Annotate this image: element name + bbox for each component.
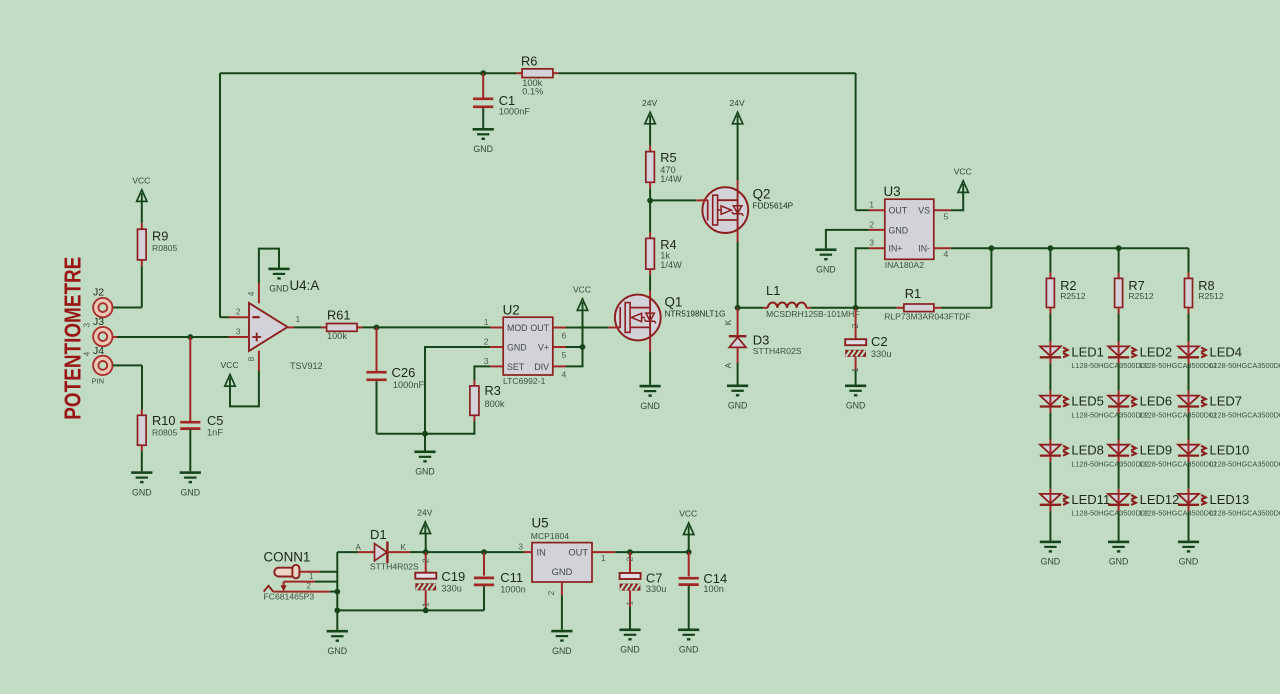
ground below C1	[473, 128, 494, 154]
resistor R5	[646, 146, 682, 189]
LED LED13	[1178, 489, 1280, 518]
svg-text:U4:A: U4:A	[290, 278, 320, 293]
svg-text:2: 2	[546, 590, 556, 595]
svg-text:SET: SET	[507, 362, 525, 372]
svg-text:L128-50HGCA3500D02: L128-50HGCA3500D02	[1071, 509, 1148, 518]
diode D3	[723, 308, 802, 369]
wire op-amp pin8 to VCC	[230, 371, 259, 406]
ground below CONN1	[327, 630, 348, 656]
svg-text:330u: 330u	[441, 583, 461, 593]
svg-text:100n: 100n	[703, 584, 723, 594]
wire 24V rail to U5 IN	[484, 551, 524, 553]
ground below LED13	[1178, 541, 1199, 567]
svg-text:Q2: Q2	[753, 186, 771, 201]
resistor R8	[1185, 273, 1224, 314]
svg-text:LED7: LED7	[1210, 394, 1243, 409]
svg-text:LED8: LED8	[1071, 443, 1104, 458]
svg-text:L128-50HGCA3500D02: L128-50HGCA3500D02	[1071, 460, 1148, 469]
wire U3 GND to ground	[826, 230, 869, 249]
svg-text:1: 1	[420, 602, 430, 607]
wire U2 V+ DIV to VCC	[566, 310, 585, 366]
svg-text:GND: GND	[889, 225, 909, 235]
svg-text:3: 3	[869, 238, 874, 248]
wire U2 GND pin to ground net	[425, 347, 490, 434]
svg-text:4: 4	[81, 351, 91, 356]
LED LED6	[1108, 390, 1217, 419]
svg-text:3: 3	[81, 323, 91, 328]
wire LED4 cathode	[1188, 364, 1190, 391]
capacitor C19	[415, 552, 465, 613]
resistor R2	[1046, 248, 1085, 313]
capacitor C5	[180, 337, 223, 471]
wire J3 to op-amp noninverting input	[113, 334, 230, 340]
svg-text:1: 1	[869, 200, 874, 210]
svg-text:1: 1	[601, 553, 606, 563]
svg-text:4: 4	[562, 369, 567, 379]
svg-text:6: 6	[562, 330, 567, 340]
svg-text:R0805: R0805	[152, 427, 178, 437]
ground below LED11	[1040, 541, 1061, 567]
svg-text:A: A	[723, 362, 733, 368]
svg-text:2: 2	[484, 336, 489, 346]
svg-text:R6: R6	[521, 53, 537, 68]
wire J4 to R10	[113, 365, 142, 409]
resistor R4	[646, 232, 682, 275]
svg-text:MCSDRH125B-101MHF: MCSDRH125B-101MHF	[766, 309, 860, 319]
connector CONN1	[264, 550, 330, 602]
resistor R9	[138, 223, 178, 266]
svg-text:U3: U3	[884, 184, 901, 199]
svg-text:GND: GND	[552, 646, 572, 656]
LED LED4	[1178, 341, 1280, 370]
ground above op-amp U4:A	[268, 268, 289, 294]
resistor R61	[321, 308, 363, 342]
svg-text:4: 4	[944, 249, 949, 259]
LED LED2	[1108, 341, 1217, 370]
wire D1 to 24V node	[410, 549, 429, 555]
power flag VCC above R9	[132, 176, 150, 224]
svg-text:Q1: Q1	[665, 295, 683, 310]
LED LED10	[1178, 440, 1280, 469]
svg-text:IN-: IN-	[918, 244, 930, 254]
svg-text:U2: U2	[503, 303, 520, 318]
svg-text:STTH4R02S: STTH4R02S	[753, 346, 802, 356]
svg-text:IN+: IN+	[889, 244, 903, 254]
svg-text:L128-50HGCA3500D02: L128-50HGCA3500D02	[1140, 410, 1217, 419]
svg-text:100k: 100k	[327, 331, 347, 341]
svg-text:800k: 800k	[485, 399, 505, 409]
svg-text:MCP1804: MCP1804	[531, 531, 569, 541]
connector J3	[81, 316, 112, 347]
svg-text:1: 1	[296, 314, 301, 324]
resistor R7	[1115, 248, 1154, 313]
svg-text:GND: GND	[1041, 557, 1061, 567]
svg-text:IN: IN	[537, 548, 546, 558]
wire Q2 drain to buck node	[737, 242, 739, 308]
wire 24V rail to C11	[426, 549, 487, 555]
svg-text:LED10: LED10	[1210, 443, 1250, 458]
LED LED5	[1040, 390, 1149, 419]
capacitor C2	[845, 308, 891, 385]
resistor R10	[138, 409, 178, 451]
svg-text:V+: V+	[538, 342, 549, 352]
wire U3 IN- to LED rail	[951, 245, 1189, 307]
svg-text:GND: GND	[1179, 557, 1199, 567]
wire bottom ground rail	[337, 609, 484, 611]
svg-text:R1: R1	[905, 286, 921, 301]
svg-text:J2: J2	[93, 286, 104, 298]
wire U3 OUT to feedback rail	[856, 209, 869, 211]
LED LED7	[1178, 390, 1280, 419]
svg-text:GND: GND	[1109, 557, 1129, 567]
svg-text:L128-50HGCA3500D02: L128-50HGCA3500D02	[1071, 361, 1148, 370]
svg-text:GND: GND	[679, 645, 699, 655]
svg-text:J3: J3	[93, 316, 104, 328]
svg-text:GND: GND	[620, 645, 640, 655]
wire ground net stem	[424, 434, 426, 451]
svg-text:2: 2	[307, 582, 312, 591]
svg-text:2: 2	[850, 323, 860, 328]
svg-text:FDD5614P: FDD5614P	[753, 201, 794, 210]
svg-text:LED1: LED1	[1071, 344, 1104, 359]
inductor L1	[738, 283, 860, 319]
ground below C2	[845, 385, 866, 411]
svg-text:330u: 330u	[646, 584, 666, 594]
wire LED6 cathode	[1118, 413, 1120, 440]
svg-text:LED11: LED11	[1071, 492, 1110, 507]
svg-text:L128-50HGCA3500D02: L128-50HGCA3500D02	[1210, 361, 1280, 370]
svg-text:L128-50HGCA3500D02: L128-50HGCA3500D02	[1140, 509, 1217, 518]
svg-text:RLP73M3AR043FTDF: RLP73M3AR043FTDF	[884, 312, 970, 322]
svg-text:C2: C2	[871, 334, 888, 349]
svg-text:1000nF: 1000nF	[393, 380, 425, 390]
wire LED5 cathode	[1049, 413, 1051, 440]
svg-text:GND: GND	[181, 487, 201, 497]
ground below D3	[727, 385, 748, 411]
title POTENTIOMETRE	[60, 257, 86, 420]
wire feedback net top rail	[220, 70, 856, 317]
svg-text:R5: R5	[660, 150, 676, 165]
svg-text:2: 2	[625, 557, 635, 562]
svg-text:LTC6992-1: LTC6992-1	[503, 376, 546, 386]
wire LED7 cathode	[1188, 413, 1190, 440]
wire op-amp output to R61	[294, 326, 321, 328]
node L1 C2 R1 junction	[853, 305, 859, 311]
svg-text:LED4: LED4	[1210, 344, 1243, 359]
svg-text:24V: 24V	[417, 508, 432, 518]
svg-text:LED12: LED12	[1140, 492, 1180, 507]
svg-text:GND: GND	[507, 342, 527, 352]
svg-text:INA180A2: INA180A2	[885, 260, 924, 270]
ground for U3	[815, 248, 836, 274]
IC U2 LTC6992-1	[484, 303, 567, 387]
resistor R1	[856, 286, 992, 322]
ground below C5	[180, 471, 201, 497]
wire LED11 to ground	[1049, 511, 1051, 540]
svg-text:4: 4	[246, 291, 256, 296]
ground below U2 net	[414, 451, 435, 477]
wire U5 OUT to VCC node	[615, 549, 691, 555]
wire U2 SET pin to R3	[474, 366, 490, 380]
svg-text:PIN: PIN	[92, 377, 105, 386]
svg-text:GND: GND	[846, 401, 866, 411]
svg-text:GND: GND	[728, 401, 748, 411]
resistor R3	[470, 380, 505, 421]
wire Q1 source to ground	[649, 352, 651, 385]
wire LED12 to ground	[1118, 511, 1120, 540]
svg-text:GND: GND	[415, 467, 435, 477]
wire J2 to R9	[113, 266, 142, 307]
svg-text:1: 1	[484, 317, 489, 327]
IC U3 INA180A2	[869, 184, 951, 270]
svg-text:1000nF: 1000nF	[499, 107, 531, 117]
svg-text:R2512: R2512	[1128, 291, 1154, 301]
wire LED8 cathode	[1049, 462, 1051, 489]
svg-text:A: A	[356, 543, 362, 552]
svg-text:1nF: 1nF	[207, 427, 223, 437]
svg-text:GND: GND	[552, 567, 573, 577]
wire LED1 cathode	[1049, 364, 1051, 391]
wire op-amp pin4 to ground	[259, 249, 279, 283]
wire D3 to ground	[737, 363, 739, 385]
wire R4 to Q1 drain	[649, 275, 651, 290]
svg-text:GND: GND	[269, 284, 289, 294]
svg-text:VCC: VCC	[954, 167, 972, 177]
svg-text:R2512: R2512	[1060, 291, 1086, 301]
svg-text:MOD: MOD	[507, 323, 528, 333]
power flag VCC for U3	[954, 167, 972, 193]
power flag VCC for op-amp	[221, 360, 239, 386]
power flag VCC for U2	[573, 285, 591, 311]
svg-text:24V: 24V	[730, 98, 745, 108]
LED LED9	[1108, 440, 1217, 469]
svg-text:1: 1	[625, 601, 635, 606]
ground below C14	[678, 629, 699, 655]
svg-text:2: 2	[869, 219, 874, 229]
LED LED8	[1040, 440, 1149, 469]
power flag VCC output	[679, 509, 697, 553]
svg-text:5: 5	[944, 211, 949, 221]
svg-text:1000n: 1000n	[500, 584, 526, 594]
svg-text:R2512: R2512	[1198, 291, 1224, 301]
svg-text:TSV912: TSV912	[290, 361, 323, 371]
LED LED11	[1040, 489, 1149, 518]
svg-text:U5: U5	[532, 516, 549, 531]
svg-text:8: 8	[246, 356, 256, 361]
node buck switch junction	[735, 305, 741, 311]
svg-text:R10: R10	[152, 413, 175, 428]
power flag 24V at input	[417, 508, 432, 553]
svg-text:GND: GND	[816, 264, 836, 274]
svg-text:D3: D3	[753, 332, 770, 347]
svg-text:GND: GND	[640, 401, 660, 411]
svg-text:L128-50HGCA3500D02: L128-50HGCA3500D02	[1210, 460, 1280, 469]
svg-text:LED2: LED2	[1140, 344, 1173, 359]
svg-text:L128-50HGCA3500D02: L128-50HGCA3500D02	[1210, 410, 1280, 419]
wire U3 VS to VCC	[951, 192, 963, 210]
svg-text:LED13: LED13	[1210, 492, 1250, 507]
svg-text:R3: R3	[485, 383, 501, 398]
capacitor C11	[474, 552, 526, 610]
wire R2 to LED1	[1049, 314, 1051, 342]
svg-text:C11: C11	[500, 570, 523, 585]
svg-text:3: 3	[484, 356, 489, 366]
svg-text:STTH4R02S: STTH4R02S	[370, 562, 419, 572]
svg-text:D1: D1	[370, 527, 387, 542]
wire LED2 cathode	[1118, 364, 1120, 391]
svg-text:K: K	[723, 319, 733, 325]
svg-text:POTENTIOMETRE: POTENTIOMETRE	[60, 257, 86, 420]
transistor Q1	[608, 291, 725, 352]
svg-text:VCC: VCC	[573, 285, 591, 295]
svg-text:OUT: OUT	[530, 323, 549, 333]
LED LED12	[1108, 489, 1217, 518]
wire U3 IN+ to sense node	[856, 248, 869, 308]
svg-text:LED6: LED6	[1140, 394, 1173, 409]
svg-text:GND: GND	[473, 144, 493, 154]
svg-text:1/4W: 1/4W	[660, 260, 682, 270]
op-amp U4:A	[229, 278, 323, 371]
LED LED1	[1040, 341, 1149, 370]
wire R61 to U2 MOD	[363, 325, 491, 331]
svg-text:R9: R9	[152, 229, 168, 244]
wire R8 to LED4	[1188, 314, 1190, 342]
svg-text:5: 5	[562, 350, 567, 360]
svg-text:0.1%: 0.1%	[522, 86, 543, 96]
svg-text:R61: R61	[327, 308, 350, 323]
svg-text:K: K	[401, 543, 407, 552]
svg-text:DIV: DIV	[534, 362, 549, 372]
ground below LED12	[1108, 541, 1129, 567]
wire R5 to R4 junction node	[647, 188, 696, 232]
svg-text:GND: GND	[132, 487, 152, 497]
svg-text:LED5: LED5	[1071, 394, 1104, 409]
wire R7 to LED2	[1118, 314, 1120, 342]
wire R3 to ground net	[422, 421, 474, 436]
svg-text:OUT: OUT	[568, 548, 588, 558]
connector J4	[81, 345, 112, 386]
resistor R6	[516, 53, 558, 96]
svg-text:C19: C19	[441, 569, 465, 584]
svg-text:R0805: R0805	[152, 243, 178, 253]
svg-text:FC681465P3: FC681465P3	[264, 592, 315, 602]
connector J2	[93, 286, 113, 317]
svg-text:VCC: VCC	[132, 176, 150, 186]
ground below R10	[131, 471, 152, 497]
wire 24V input rail	[337, 551, 358, 553]
svg-text:1: 1	[309, 572, 314, 581]
svg-text:C26: C26	[392, 365, 416, 380]
svg-text:R4: R4	[660, 237, 676, 252]
svg-text:330u: 330u	[871, 349, 891, 359]
ground below U5	[551, 630, 572, 656]
capacitor C1	[473, 73, 530, 128]
capacitor C14	[679, 552, 728, 628]
svg-text:NTR5198NLT1G: NTR5198NLT1G	[665, 310, 726, 319]
svg-text:3: 3	[236, 326, 241, 336]
transistor Q2	[696, 180, 793, 242]
wire U2 OUT to Q1 gate	[566, 327, 608, 329]
svg-text:L128-50HGCA3500D02: L128-50HGCA3500D02	[1140, 460, 1217, 469]
wire LED9 cathode	[1118, 462, 1120, 489]
power flag 24V above R5	[642, 98, 657, 146]
svg-text:3: 3	[518, 542, 523, 552]
svg-text:LED9: LED9	[1140, 443, 1173, 458]
ground below C7	[619, 629, 640, 655]
svg-text:24V: 24V	[642, 98, 657, 108]
wire LED10 cathode	[1188, 462, 1190, 489]
IC U5 MCP1804	[518, 516, 615, 596]
svg-text:VS: VS	[918, 206, 930, 216]
svg-text:OUT: OUT	[889, 206, 908, 216]
diode D1	[356, 527, 419, 572]
svg-text:C1: C1	[499, 93, 515, 108]
svg-text:L128-50HGCA3500D02: L128-50HGCA3500D02	[1210, 509, 1280, 518]
svg-text:J4: J4	[93, 345, 104, 357]
wire CONN1 pins to vertical	[315, 552, 340, 613]
svg-text:2: 2	[420, 558, 430, 563]
capacitor C26	[366, 327, 425, 433]
ground below Q1	[640, 385, 661, 411]
svg-text:2: 2	[236, 307, 241, 317]
svg-text:GND: GND	[328, 646, 348, 656]
svg-text:CONN1: CONN1	[264, 550, 311, 565]
svg-text:C5: C5	[207, 413, 223, 428]
capacitor C7	[620, 552, 667, 628]
wire CONN1 to ground	[336, 610, 338, 630]
wire R10 to ground	[141, 451, 143, 471]
power flag 24V above Q2	[730, 98, 745, 180]
svg-text:1/4W: 1/4W	[660, 174, 682, 184]
svg-text:VCC: VCC	[679, 509, 697, 519]
wire U5 GND to ground	[561, 596, 563, 630]
svg-text:VCC: VCC	[221, 360, 239, 370]
wire LED13 to ground	[1188, 511, 1190, 540]
svg-text:L1: L1	[766, 283, 780, 298]
svg-text:L128-50HGCA3500D02: L128-50HGCA3500D02	[1140, 361, 1217, 370]
svg-text:L128-50HGCA3500D02: L128-50HGCA3500D02	[1071, 410, 1148, 419]
